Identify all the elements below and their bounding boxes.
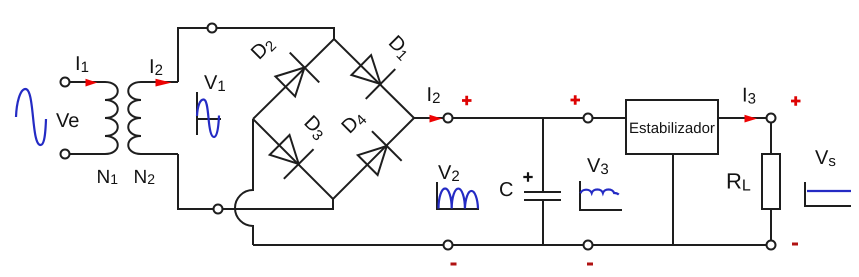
polarity minus 2 xyxy=(587,263,593,266)
waveform icon V2 rectified humps xyxy=(439,188,479,208)
diode D1 xyxy=(347,50,396,99)
node negative terminal 1 xyxy=(444,241,453,250)
waveform icon Vs dc line xyxy=(807,190,851,192)
waveform icon Vs axes xyxy=(805,182,851,207)
wire stabilizer output xyxy=(718,117,767,119)
polarity plus 1 xyxy=(462,96,472,106)
waveform icon V2 axes xyxy=(437,182,479,209)
svg-text:D4: D4 xyxy=(337,106,370,139)
svg-text:Ve: Ve xyxy=(56,110,79,132)
transformer secondary winding N2 with leads xyxy=(128,82,178,154)
capacitor C branch lower wire xyxy=(542,200,544,245)
waveform icon V3 ripple xyxy=(581,190,619,195)
svg-text:I1: I1 xyxy=(75,53,89,76)
current arrow I3 xyxy=(745,115,758,123)
capacitor polarity plus black xyxy=(523,172,532,181)
polarity plus 2 xyxy=(571,95,581,105)
node source bottom terminal xyxy=(61,150,70,159)
svg-text:D3: D3 xyxy=(298,111,331,144)
polarity minus 3 xyxy=(792,243,798,246)
polarity minus 1 xyxy=(451,263,457,266)
svg-text:I2: I2 xyxy=(427,84,441,107)
svg-text:Estabilizador: Estabilizador xyxy=(629,120,715,137)
wire resistor top lead xyxy=(770,123,772,155)
svg-text:D1: D1 xyxy=(382,31,415,64)
capacitor C branch upper wire xyxy=(542,118,544,192)
svg-text:Vs: Vs xyxy=(815,147,836,170)
node negative terminal 2 xyxy=(584,241,593,250)
wire stabilizer ground stub xyxy=(672,154,674,245)
wire bottom negative rail xyxy=(253,244,767,246)
svg-text:N2: N2 xyxy=(134,167,156,188)
svg-text:C: C xyxy=(499,179,513,201)
node positive terminal 2 xyxy=(584,114,593,123)
diode D2 xyxy=(271,53,320,102)
polarity plus 3 xyxy=(791,96,801,106)
wire negative output drop with hop over AC wire xyxy=(235,119,253,245)
svg-text:V3: V3 xyxy=(587,155,609,178)
svg-text:I2: I2 xyxy=(149,56,163,79)
transformer primary winding N1 with leads xyxy=(70,82,118,154)
wire resistor bottom lead xyxy=(770,209,772,241)
svg-text:N1: N1 xyxy=(97,167,119,188)
wire secondary top to bridge top corner xyxy=(178,28,334,82)
waveform icon V1 axes xyxy=(197,92,221,135)
node top rail terminal xyxy=(208,24,217,33)
bridge lower edges wire xyxy=(253,118,414,199)
diode D4 xyxy=(353,131,402,180)
node output negative terminal xyxy=(767,241,776,250)
ac source Ve sine symbol xyxy=(16,89,46,145)
svg-text:RL: RL xyxy=(726,169,751,195)
current arrow I2 output xyxy=(430,115,443,123)
diode D3 xyxy=(265,130,314,179)
svg-text:I3: I3 xyxy=(742,85,756,108)
waveform icon V1 sine xyxy=(197,100,219,138)
node bottom AC terminal xyxy=(214,205,223,214)
node source top terminal xyxy=(61,78,70,87)
capacitor C plates xyxy=(524,192,561,200)
current arrow I1 xyxy=(86,79,98,87)
svg-text:D2: D2 xyxy=(247,32,280,65)
wire positive rail bridge to stabilizer xyxy=(414,117,626,119)
wire secondary bottom to bridge bottom corner xyxy=(178,154,333,209)
stabilizer box Estabilizador xyxy=(626,100,718,154)
svg-text:V2: V2 xyxy=(438,162,460,185)
resistor RL xyxy=(762,154,780,209)
node positive terminal 1 xyxy=(444,114,453,123)
bridge upper edges wire xyxy=(253,39,414,119)
svg-text:V1: V1 xyxy=(204,72,226,95)
current arrow I2 secondary xyxy=(156,79,172,87)
node output positive terminal xyxy=(767,114,776,123)
waveform icon V3 axes xyxy=(580,181,622,211)
